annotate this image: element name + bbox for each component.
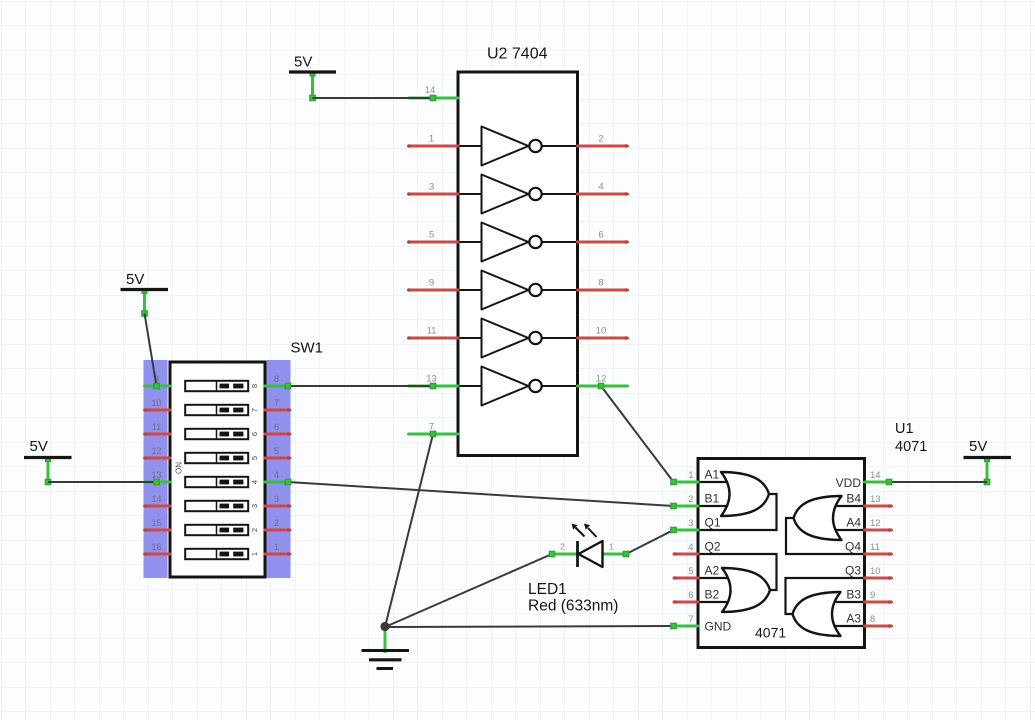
svg-text:ON: ON — [175, 462, 184, 474]
pin 3 of U1 (Q1) — [674, 516, 721, 531]
svg-text:9: 9 — [429, 278, 434, 289]
svg-text:A3: A3 — [846, 612, 861, 626]
svg-text:U2 7404: U2 7404 — [487, 46, 548, 63]
pin 1 of SW1 — [265, 542, 290, 556]
svg-text:2: 2 — [560, 542, 565, 552]
svg-text:6: 6 — [688, 590, 693, 601]
svg-text:4071: 4071 — [755, 625, 786, 641]
svg-text:8: 8 — [870, 614, 875, 625]
LED LED1 pin 1 stub — [602, 542, 626, 555]
svg-text:5: 5 — [429, 230, 434, 241]
svg-text:15: 15 — [151, 518, 161, 528]
pin 5 of U2 — [407, 230, 458, 244]
svg-text:14: 14 — [425, 85, 436, 96]
wire SW1 pin 8 to U2 pin 13 — [288, 385, 433, 387]
wire 5V supply to SW1 pin 9 — [145, 314, 157, 387]
svg-text:10: 10 — [151, 398, 161, 408]
svg-text:4071: 4071 — [895, 439, 927, 455]
pin 8 of U2 — [578, 278, 628, 292]
switch element 2 of SW1 — [185, 525, 259, 535]
pin 13 of SW1 — [145, 470, 171, 482]
node U2 pin12 junction — [598, 383, 604, 389]
svg-text:5V: 5V — [969, 438, 987, 455]
power symbol 5V V2 (feeds SW1 pin 9) — [121, 271, 169, 316]
svg-text:4: 4 — [688, 542, 693, 553]
svg-text:14: 14 — [870, 470, 881, 481]
pin 12 of U2 — [578, 374, 628, 387]
pin 3 of SW1 — [265, 494, 290, 508]
pin 11 of SW1 — [144, 422, 170, 436]
svg-text:VDD: VDD — [836, 476, 862, 490]
node U2 pin7 junction — [430, 431, 436, 437]
svg-text:4: 4 — [598, 182, 603, 193]
wire ground node to U1 pin 7 (GND) — [385, 626, 674, 627]
node SW1 pin9 junction — [154, 383, 160, 389]
node U2 pin14 junction — [430, 95, 436, 101]
svg-text:13: 13 — [151, 470, 161, 480]
pin 11 of U1 (Q4) — [845, 540, 892, 556]
svg-text:11: 11 — [870, 542, 880, 553]
svg-text:U1: U1 — [895, 421, 914, 437]
svg-text:LED1: LED1 — [528, 581, 567, 598]
pin 14 of U1 (VDD) — [836, 470, 889, 490]
pin 8 of SW1 — [265, 374, 290, 386]
svg-text:1: 1 — [250, 552, 259, 556]
svg-text:1: 1 — [429, 134, 434, 145]
OR gate U1D (B4,A4 -> Q4) — [786, 496, 864, 554]
svg-text:A4: A4 — [846, 516, 861, 530]
pin 6 of SW1 — [265, 422, 290, 436]
svg-text:5V: 5V — [30, 438, 48, 455]
svg-text:Red (633nm): Red (633nm) — [528, 598, 618, 615]
pin 5 of U1 (A2) — [673, 564, 719, 580]
svg-text:GND: GND — [705, 620, 732, 634]
pin 3 of U2 — [407, 182, 458, 196]
node SW1 pin8 junction — [285, 383, 291, 389]
svg-text:12: 12 — [870, 518, 881, 529]
pin 2 of U2 — [578, 134, 628, 148]
wire 5V supply to U2 pin 14 — [313, 97, 434, 99]
switch element 6 of SW1 — [185, 429, 259, 439]
pin 6 of U2 — [578, 230, 628, 244]
svg-text:10: 10 — [870, 566, 881, 577]
svg-text:8: 8 — [274, 374, 279, 384]
pin 14 of SW1 — [144, 494, 170, 508]
svg-text:3: 3 — [688, 518, 693, 529]
OR gate U1B (A2,B2 -> Q2) — [699, 554, 777, 612]
wire U2 pin 7 to ground node — [385, 434, 433, 627]
svg-text:B4: B4 — [846, 492, 861, 506]
inverter gate U2C — [459, 223, 577, 262]
OR gate U1A (A1,B1 -> Q1) — [699, 472, 777, 530]
inverter gate U2F — [459, 367, 577, 406]
svg-text:Q4: Q4 — [845, 540, 861, 554]
OR gate U1C (B3,A3 -> Q3) — [786, 578, 864, 636]
node U1 pin3 junction — [671, 527, 677, 533]
LED LED1 symbol — [572, 524, 603, 568]
node SW1 pin13 junction — [154, 479, 160, 485]
pin 1 of U2 — [407, 134, 458, 148]
pin 5 of SW1 — [265, 446, 290, 460]
power symbol 5V V4 (feeds U1 VDD) — [964, 438, 1012, 485]
svg-text:SW1: SW1 — [291, 340, 324, 357]
node U1 pin1 junction — [671, 479, 677, 485]
wire ground node to LED1 pin 2 — [385, 554, 552, 627]
svg-text:6: 6 — [250, 432, 259, 436]
switch element 7 of SW1 — [185, 405, 259, 415]
pin 11 of U2 — [407, 326, 458, 340]
svg-text:7: 7 — [688, 614, 693, 625]
svg-text:A1: A1 — [705, 468, 720, 482]
pin 10 of U1 (Q3) — [845, 564, 892, 580]
svg-text:5: 5 — [250, 456, 259, 460]
switch element 8 of SW1 — [185, 381, 259, 391]
wire LED1 pin 1 to U1 pin 3 (Q1) — [626, 530, 674, 554]
node U1 pin14 junction — [886, 479, 892, 485]
svg-text:4: 4 — [274, 470, 279, 480]
switch element 1 of SW1 — [185, 549, 259, 559]
node U1 pin2 junction — [671, 503, 677, 509]
svg-text:A2: A2 — [705, 564, 720, 578]
node LED1 pin1 junction — [623, 551, 629, 557]
svg-text:7: 7 — [274, 398, 279, 408]
pin 4 of U1 (Q2) — [673, 540, 721, 556]
node U1 pin7 junction — [671, 623, 677, 629]
svg-text:5V: 5V — [126, 271, 144, 288]
svg-text:3: 3 — [274, 494, 279, 504]
inverter gate U2B — [459, 175, 577, 214]
svg-text:13: 13 — [870, 494, 881, 505]
wire SW1 pin 4 to U1 pin 2 (B1) — [288, 482, 674, 506]
pin 6 of U1 (B2) — [673, 588, 719, 604]
pin 7 of SW1 — [265, 398, 290, 412]
wire 5V supply to U1 pin 14 (VDD) — [889, 481, 987, 483]
inverter gate U2D — [459, 271, 577, 310]
svg-text:3: 3 — [429, 182, 434, 193]
svg-text:B1: B1 — [705, 492, 720, 506]
svg-text:1: 1 — [609, 542, 614, 552]
svg-text:2: 2 — [688, 494, 693, 505]
LED LED1 pin 2 stub — [552, 542, 578, 555]
svg-text:2: 2 — [274, 518, 279, 528]
svg-text:10: 10 — [596, 326, 607, 337]
svg-text:4: 4 — [250, 480, 259, 484]
ground junction node — [380, 622, 389, 631]
svg-text:7: 7 — [250, 408, 259, 412]
svg-text:2: 2 — [250, 528, 259, 532]
node SW1 pin4 junction — [285, 479, 291, 485]
svg-text:1: 1 — [688, 470, 693, 481]
power symbol 5V V3 (feeds SW1 pin 13) — [24, 438, 72, 485]
switch SW1 left pin band — [144, 360, 168, 578]
pin 9 of U2 — [407, 278, 458, 292]
IC U2 7404 hex inverter body — [458, 46, 578, 456]
pin 7 of U2 — [409, 422, 459, 435]
svg-text:9: 9 — [870, 590, 875, 601]
svg-text:6: 6 — [274, 422, 279, 432]
svg-text:Q2: Q2 — [705, 540, 721, 554]
svg-text:B3: B3 — [846, 588, 861, 602]
svg-text:5V: 5V — [294, 54, 312, 71]
svg-text:8: 8 — [598, 278, 603, 289]
pin 1 of U1 (A1) — [674, 468, 720, 483]
svg-text:2: 2 — [598, 134, 603, 145]
svg-text:6: 6 — [598, 230, 603, 241]
svg-text:5: 5 — [688, 566, 693, 577]
switch element 3 of SW1 — [185, 501, 259, 511]
LED LED1 labels — [528, 581, 618, 615]
pin 10 of SW1 — [144, 398, 170, 412]
svg-text:Q1: Q1 — [705, 516, 721, 530]
pin 2 of SW1 — [265, 518, 290, 532]
pin 16 of SW1 — [144, 542, 170, 556]
switch SW1 right pin band — [267, 360, 291, 578]
svg-text:14: 14 — [151, 494, 161, 504]
svg-text:8: 8 — [250, 384, 259, 388]
svg-text:11: 11 — [152, 422, 161, 432]
ground symbol — [362, 627, 410, 669]
wire U2 pin 12 to U1 pin 1 (A1) — [601, 386, 674, 482]
pin 14 of U2 (VCC) — [409, 85, 458, 98]
pin 12 of SW1 — [144, 446, 170, 460]
svg-text:16: 16 — [151, 542, 161, 552]
node LED1 pin2 junction — [549, 551, 555, 557]
pin 7 of U1 (GND) — [674, 614, 732, 634]
svg-text:3: 3 — [250, 504, 259, 508]
power symbol 5V V1 (feeds U2 pin 14) — [289, 54, 336, 101]
inverter gate U2E — [459, 319, 577, 358]
switch SW1 body — [170, 340, 323, 578]
pin 13 of U1 (B4) — [846, 492, 891, 508]
switch element 5 of SW1 — [185, 453, 259, 463]
svg-text:1: 1 — [274, 542, 279, 552]
inverter gate U2A — [459, 127, 577, 166]
svg-text:B2: B2 — [705, 588, 720, 602]
pin 15 of SW1 — [144, 518, 170, 532]
pin 12 of U1 (A4) — [846, 516, 891, 532]
svg-text:5: 5 — [274, 446, 279, 456]
pin 4 of U2 — [578, 182, 628, 196]
switch element 4 of SW1 — [185, 477, 259, 487]
wire 5V supply to SW1 pin 13 — [48, 481, 157, 483]
svg-text:11: 11 — [427, 326, 437, 337]
svg-text:12: 12 — [151, 446, 161, 456]
pin 9 of U1 (B3) — [846, 588, 891, 604]
svg-text:Q3: Q3 — [845, 564, 861, 578]
pin 13 of U2 — [409, 374, 459, 387]
pin 9 of SW1 — [145, 374, 171, 386]
node U2 pin13 junction — [430, 383, 436, 389]
pin 2 of U1 (B1) — [674, 492, 720, 507]
pin 8 of U1 (A3) — [846, 612, 891, 628]
pin 10 of U2 — [578, 326, 628, 340]
IC U1 4071 quad OR gate body — [698, 421, 927, 648]
pin 4 of SW1 — [265, 470, 290, 482]
